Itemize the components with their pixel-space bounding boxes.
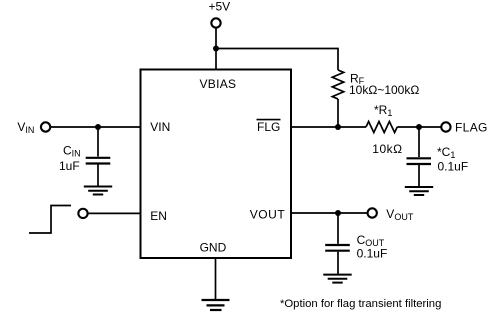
svg-text:FLAG: FLAG [455,120,488,134]
capacitor CIN [86,158,111,164]
EN step waveform signal [29,206,71,234]
ground (COUT) [323,275,351,283]
terminal VOUT [368,208,377,217]
wire GND pin to ground [215,258,217,300]
capacitor COUT [325,245,350,251]
wire +5V down to VBIAS [215,28,217,70]
svg-text:VBIAS: VBIAS [200,77,237,91]
node +5V/RF junction [213,46,219,52]
node COUT junction [335,210,341,216]
svg-text:10kΩ: 10kΩ [372,142,402,156]
wire node to C1 [418,127,420,157]
wire EN to pin [88,212,141,214]
wire RF bottom to FLG node [337,99,339,127]
wire FLG pin to R1 [291,126,366,128]
wire R1 to FLAG terminal [397,126,441,128]
wire C1 to ground [418,165,420,187]
svg-text:0.1uF: 0.1uF [357,247,388,261]
terminal EN [78,209,87,218]
ground (C1) [405,187,433,195]
node FLG junction [335,124,341,130]
node C1 junction [416,124,422,130]
svg-text:+5V: +5V [209,0,231,14]
svg-text:VOUT: VOUT [250,208,286,222]
svg-text:0.1uF: 0.1uF [438,160,469,174]
wire node to COUT [337,213,339,244]
resistor R1 [366,122,397,133]
pin label FLG (active low) [257,120,281,135]
svg-text:EN: EN [150,209,167,223]
svg-text:10kΩ~100kΩ: 10kΩ~100kΩ [349,83,419,97]
IC U1 box [141,70,292,259]
ground (GND pin) [202,300,230,310]
wire node to CIN [97,127,99,157]
wire CIN to ground [97,165,99,187]
wire COUT to ground [337,252,339,274]
svg-text:GND: GND [200,241,227,255]
terminal VIN [41,122,50,131]
wire +5V to RF top [216,49,338,71]
power +5V terminal [211,18,220,27]
resistor RF [332,70,343,99]
svg-text:1uF: 1uF [59,159,80,173]
svg-text:VIN: VIN [150,120,170,134]
node CIN junction [95,124,101,130]
ground (CIN) [84,187,112,195]
terminal FLAG [441,122,450,131]
wire VOUT pin to terminal [291,212,367,214]
wire VIN to pin [50,126,140,128]
capacitor C1 [407,158,432,164]
svg-text:FLG: FLG [257,120,280,134]
svg-text:*Option for flag transient fil: *Option for flag transient filtering [280,298,441,310]
